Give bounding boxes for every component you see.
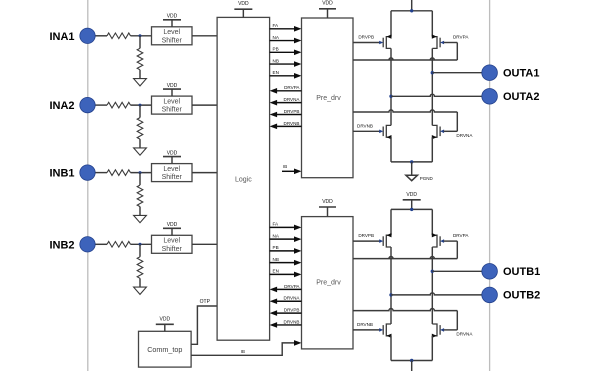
svg-text:VDD: VDD — [406, 192, 417, 198]
pin OUTA1 pad — [482, 65, 498, 81]
wire DRVNB gate A — [353, 130, 380, 132]
wire OUTA1 A — [432, 72, 482, 74]
wire DRVPB pre-driver B to logic — [277, 312, 302, 314]
node VDD rail junction A — [410, 9, 413, 12]
svg-text:OTP: OTP — [200, 299, 211, 305]
wire source leads B low side — [390, 336, 392, 361]
wire level shifter U3 to logic — [192, 172, 217, 174]
svg-text:IB: IB — [241, 349, 245, 354]
wire NA logic to pre-driver B — [270, 238, 295, 240]
svg-text:EN: EN — [273, 70, 279, 75]
VDD supply comm_top — [156, 323, 174, 325]
node OUTB2 tap — [389, 293, 392, 296]
node OUTB1 tap — [431, 270, 434, 273]
node PGND junction B — [410, 359, 413, 362]
pre-driver block U7 Pre_drv B — [302, 217, 354, 349]
wire level shifter U1 to logic — [192, 35, 217, 37]
wire resistor to ground INB1 — [139, 207, 141, 216]
wire NB logic to pre-driver A — [270, 63, 295, 65]
svg-text:DRVPA: DRVPA — [284, 284, 300, 289]
wire PGND stem A — [411, 162, 413, 175]
pin OUTB2 pad — [482, 287, 498, 303]
transistor Q2 PMOS A right — [432, 37, 437, 49]
svg-text:NB: NB — [273, 58, 279, 63]
svg-text:Pre_drv: Pre_drv — [316, 95, 341, 102]
ground GND INA1 shunt — [134, 79, 147, 86]
svg-text:DRVNB: DRVNB — [284, 319, 300, 324]
wire resistor to ground INB2 — [139, 278, 141, 287]
wire shunt stub INA2 — [139, 105, 141, 118]
ground GND INA2 shunt — [134, 148, 147, 155]
svg-text:Shifter: Shifter — [162, 246, 183, 253]
wire OUTA2 A — [391, 94, 483, 96]
wire DRVNA pre-driver A to logic — [277, 102, 302, 104]
level shifter U4 box — [152, 235, 193, 253]
svg-text:DRVNB: DRVNB — [284, 121, 300, 126]
svg-text:DRVNA: DRVNA — [284, 296, 301, 301]
svg-text:DRVNA: DRVNA — [456, 332, 473, 337]
level shifter U2 box — [152, 96, 193, 114]
ground GND INB2 shunt — [134, 287, 147, 294]
resistor R2 shunt INA1 — [137, 48, 143, 70]
wire OUTB1 B — [432, 270, 482, 272]
wire switch node right B — [431, 247, 433, 324]
wire DRVNA gate loop A — [353, 110, 457, 112]
svg-text:VDD: VDD — [167, 150, 178, 156]
pre-driver block U6 Pre_drv A — [302, 18, 354, 178]
wire DRVPA gate loop B — [444, 240, 458, 242]
node PGND junction A — [410, 160, 413, 163]
wire PGND stem B — [411, 361, 413, 371]
svg-text:Shifter: Shifter — [162, 174, 183, 181]
svg-text:PB: PB — [273, 245, 279, 250]
svg-text:Logic: Logic — [235, 177, 252, 184]
VDD supply pre-driver U7 — [319, 206, 336, 208]
transistor Q5 PMOS B left — [386, 235, 391, 247]
svg-text:OUTA2: OUTA2 — [503, 91, 539, 103]
VDD stem output stage A — [411, 0, 413, 11]
transistor Q6 PMOS B right — [432, 235, 437, 247]
svg-text:Level: Level — [163, 99, 180, 106]
wire INB2 input to series resistor — [95, 243, 107, 245]
pin INB2 pad — [80, 237, 95, 252]
wire FA logic to pre-driver B — [270, 226, 295, 228]
node VDD rail junction B — [410, 208, 413, 211]
pin INB1 pad — [80, 165, 95, 180]
pin INA1 pad — [80, 28, 95, 43]
node INB1 junction — [139, 171, 142, 174]
transistor Q3 NMOS A left — [386, 125, 391, 137]
svg-text:DRVNB: DRVNB — [357, 322, 373, 327]
wire EN logic to pre-driver B — [270, 273, 295, 275]
svg-text:DRVPA: DRVPA — [284, 85, 300, 90]
resistor R1 series INA1 — [107, 33, 131, 39]
svg-text:OUTB1: OUTB1 — [503, 266, 540, 278]
svg-text:FA: FA — [273, 222, 280, 227]
wire DRVPA gate loop A — [444, 42, 458, 44]
wire INA2 input to series resistor — [95, 104, 107, 106]
svg-text:DRVNA: DRVNA — [284, 97, 301, 102]
VDD supply level shifter U1 — [163, 19, 181, 21]
wire switch node left B — [390, 247, 392, 324]
right page border line — [489, 0, 491, 371]
VDD supply level shifter U2 — [163, 88, 181, 90]
svg-text:NA: NA — [273, 35, 280, 40]
wire source leads A high side — [390, 11, 392, 37]
wire IB comm_top to pre-driver U7 — [191, 343, 294, 355]
level shifter U1 box — [152, 27, 193, 45]
ground GND INB1 shunt — [134, 215, 147, 222]
svg-text:Level: Level — [163, 29, 180, 36]
svg-text:IB: IB — [283, 164, 287, 169]
ground PGND A — [406, 175, 418, 181]
wire shunt stub INB2 — [139, 244, 141, 256]
node INB2 junction — [139, 243, 142, 246]
wire INA1 input to series resistor — [95, 35, 107, 37]
wire shunt stub INB1 — [139, 173, 141, 186]
svg-text:OUTA1: OUTA1 — [503, 68, 539, 80]
svg-text:OUTB2: OUTB2 — [503, 290, 540, 302]
wire DRVNB gate B — [353, 329, 380, 331]
svg-text:VDD: VDD — [167, 222, 178, 228]
wire VDD rail stage B — [391, 208, 432, 210]
node INA2 junction — [139, 104, 142, 107]
svg-text:Level: Level — [163, 238, 180, 245]
resistor R6 shunt INB1 — [137, 185, 143, 207]
svg-text:DRVPB: DRVPB — [284, 308, 300, 313]
svg-text:NA: NA — [273, 233, 280, 238]
wire switch node left A — [390, 48, 392, 125]
svg-text:NB: NB — [273, 257, 279, 262]
transistor Q4 NMOS A right — [432, 125, 437, 137]
VDD supply output stage B — [403, 199, 421, 201]
svg-text:Shifter: Shifter — [162, 37, 183, 44]
left page border line — [87, 0, 89, 371]
wire DRVNB pre-driver A to logic — [277, 125, 302, 127]
wire resistor to level shifter INB2 — [131, 243, 152, 245]
VDD supply pre-driver U6 — [319, 8, 336, 10]
wire PB logic to pre-driver B — [270, 250, 295, 252]
level shifter U3 box — [152, 164, 193, 182]
wire shunt stub INA1 — [139, 36, 141, 49]
resistor R3 series INA2 — [107, 102, 131, 108]
wire resistor to level shifter INA2 — [131, 104, 152, 106]
logic block U5 — [217, 17, 270, 340]
node OUTA2 tap — [389, 95, 392, 98]
resistor R4 shunt INA2 — [137, 118, 143, 140]
VDD supply level shifter U4 — [163, 227, 181, 229]
transistor Q8 NMOS B right — [432, 324, 437, 336]
wire OUTB2 B — [391, 293, 483, 295]
svg-text:DRVNB: DRVNB — [357, 123, 373, 128]
wire INB1 input to series resistor — [95, 172, 107, 174]
wire DRVPA pre-driver B to logic — [277, 288, 302, 290]
transistor Q7 NMOS B left — [386, 324, 391, 336]
svg-text:PB: PB — [273, 47, 279, 52]
comm_top block U8 — [139, 331, 192, 367]
wire DRVNA gate loop B — [353, 309, 457, 311]
wire DRVPB pre-driver A to logic — [277, 114, 302, 116]
wire level shifter U4 to logic — [192, 243, 217, 245]
pin OUTB1 pad — [482, 264, 498, 280]
wire DRVPB gate A — [353, 42, 380, 44]
svg-text:INB2: INB2 — [49, 239, 74, 251]
resistor R7 series INB2 — [107, 242, 131, 248]
svg-text:VDD: VDD — [167, 83, 178, 89]
svg-text:VDD: VDD — [160, 316, 171, 322]
svg-text:DRVPA: DRVPA — [453, 233, 469, 238]
wire level shifter U2 to logic — [192, 104, 217, 106]
svg-text:DRVPB: DRVPB — [358, 34, 374, 39]
wire DRVPA pre-driver A to logic — [277, 90, 302, 92]
node OUTA1 tap — [431, 71, 434, 74]
wire FA logic to pre-driver A — [270, 28, 295, 30]
wire IB bias into pre-driver U6 — [282, 170, 295, 172]
resistor R5 series INB1 — [107, 170, 131, 176]
wire DRVPB gate B — [353, 240, 380, 242]
svg-text:DRVNA: DRVNA — [456, 133, 473, 138]
wire resistor to ground INA1 — [139, 70, 141, 79]
wire DRVNB pre-driver B to logic — [277, 324, 302, 326]
svg-text:EN: EN — [273, 269, 279, 274]
svg-text:DRVPB: DRVPB — [284, 109, 300, 114]
svg-text:INA1: INA1 — [49, 31, 74, 43]
wire NA logic to pre-driver A — [270, 40, 295, 42]
svg-text:INB1: INB1 — [49, 168, 74, 180]
wire PGND rail A — [391, 161, 432, 163]
wire resistor to ground INA2 — [139, 139, 141, 148]
wire PB logic to pre-driver A — [270, 51, 295, 53]
svg-text:VDD: VDD — [238, 1, 249, 7]
VDD supply logic — [234, 8, 252, 10]
svg-text:VDD: VDD — [322, 199, 333, 205]
wire NB logic to pre-driver B — [270, 262, 295, 264]
svg-text:VDD: VDD — [167, 14, 178, 20]
pin INA2 pad — [80, 97, 95, 112]
wire resistor to level shifter INA1 — [131, 35, 152, 37]
wire OTP comm_top to logic — [191, 306, 217, 344]
svg-text:DRVPA: DRVPA — [453, 34, 469, 39]
svg-text:Pre_drv: Pre_drv — [316, 279, 341, 286]
svg-text:VDD: VDD — [322, 1, 333, 7]
resistor R8 shunt INB2 — [137, 257, 143, 279]
wire PGND rail B — [391, 360, 432, 362]
wire source leads B high side — [390, 209, 392, 235]
svg-text:INA2: INA2 — [49, 100, 74, 112]
svg-text:PGND: PGND — [420, 176, 434, 181]
wire VDD rail stage A — [391, 10, 432, 12]
svg-text:Shifter: Shifter — [162, 107, 183, 114]
wire resistor to level shifter INB1 — [131, 172, 152, 174]
wire DRVNA pre-driver B to logic — [277, 300, 302, 302]
svg-text:DRVPB: DRVPB — [358, 233, 374, 238]
wire switch node right A — [431, 48, 433, 125]
node INA1 junction — [139, 34, 142, 37]
wire source leads A low side — [390, 137, 392, 162]
VDD supply level shifter U3 — [163, 156, 181, 158]
transistor Q1 PMOS A left — [386, 37, 391, 49]
svg-text:Comm_top: Comm_top — [147, 345, 182, 354]
pin OUTA2 pad — [482, 89, 498, 105]
svg-text:FA: FA — [273, 23, 280, 28]
wire EN logic to pre-driver A — [270, 75, 295, 77]
svg-text:Level: Level — [163, 166, 180, 173]
